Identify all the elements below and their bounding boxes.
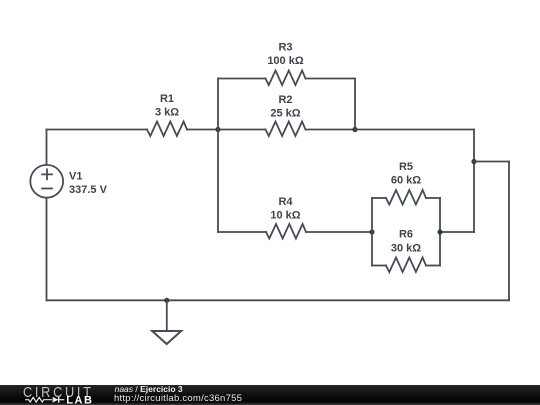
- svg-text:30 kΩ: 30 kΩ: [391, 243, 421, 255]
- footer bar: [0, 385, 540, 405]
- svg-text:R4: R4: [278, 196, 293, 208]
- resistor R3: [266, 71, 306, 86]
- svg-text:R2: R2: [278, 94, 292, 106]
- wire right vertical down: [473, 130, 475, 233]
- resistor R5: [386, 190, 426, 205]
- box left junction dot: [369, 229, 374, 234]
- ground junction dot: [164, 298, 169, 303]
- svg-text:R1: R1: [160, 93, 174, 105]
- footer url line: [114, 393, 242, 404]
- wire R3 branch right: [306, 78, 356, 80]
- wire node B right: [355, 129, 474, 131]
- resistor R6: [386, 258, 426, 273]
- svg-text:R3: R3: [278, 42, 292, 54]
- wire R3 branch left: [218, 78, 266, 80]
- wire V1 bottom stub: [46, 198, 48, 300]
- wire R6 lead right: [426, 265, 440, 267]
- logo diode triangle: [53, 396, 59, 402]
- wire R6 lead left: [372, 265, 386, 267]
- wire node A up to R3 branch: [217, 79, 219, 130]
- resistor R2: [266, 122, 306, 137]
- wire right rail down: [508, 162, 510, 301]
- CircuitLab logo CIRCUIT text: [0, 385, 110, 405]
- svg-text:60 kΩ: 60 kΩ: [391, 175, 421, 187]
- ground symbol: [152, 331, 181, 344]
- voltage source V1: [30, 165, 63, 198]
- box right junction dot: [437, 229, 442, 234]
- svg-text:25 kΩ: 25 kΩ: [270, 108, 300, 120]
- svg-text:337.5 V: 337.5 V: [69, 184, 108, 196]
- wire box left vertical: [371, 198, 373, 266]
- wire R4 to box left: [306, 231, 372, 233]
- wire R3 right down to node B: [354, 79, 356, 130]
- svg-text:3 kΩ: 3 kΩ: [155, 107, 179, 119]
- wire R5 lead right: [426, 197, 440, 199]
- wire top left horizontal: [47, 129, 148, 131]
- wire node A down to R4 branch: [217, 130, 219, 233]
- node B junction dot: [352, 127, 357, 132]
- svg-text:V1: V1: [69, 171, 82, 183]
- svg-text:100 kΩ: 100 kΩ: [267, 55, 304, 67]
- wire node A to R2: [218, 129, 266, 131]
- node C junction dot: [471, 159, 476, 164]
- node A junction dot: [215, 127, 220, 132]
- svg-text:R5: R5: [399, 161, 413, 173]
- svg-text:10 kΩ: 10 kΩ: [270, 210, 300, 222]
- wire to box right: [440, 231, 474, 233]
- footer title line: [115, 384, 183, 394]
- wire node C to right rail: [474, 161, 509, 163]
- logo resistor-diode symbol: [25, 396, 64, 402]
- wire R1 to node A: [187, 129, 218, 131]
- wire R2 to node B: [306, 129, 356, 131]
- wire bottom horizontal: [47, 299, 510, 301]
- resistor R1: [147, 122, 187, 137]
- svg-text:LAB: LAB: [66, 394, 93, 405]
- resistor R4: [266, 224, 306, 239]
- wire box right vertical: [439, 198, 441, 266]
- svg-text:R6: R6: [399, 229, 413, 241]
- wire R5 lead left: [372, 197, 386, 199]
- wire R4 branch left: [218, 231, 266, 233]
- wire ground stem: [166, 300, 168, 331]
- wire V1 top stub: [46, 130, 48, 165]
